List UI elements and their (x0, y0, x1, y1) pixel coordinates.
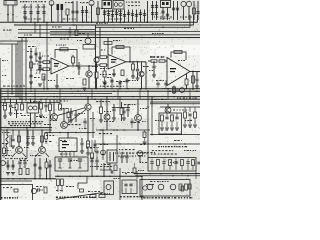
IC U4 (59, 138, 77, 152)
wire (104, 10, 106, 23)
resistor (26, 169, 29, 175)
label (90, 147, 99, 148)
wire cap stem (82, 6, 84, 22)
label (137, 152, 155, 153)
capacitor (130, 121, 133, 123)
resistor (194, 112, 197, 118)
value label (114, 178, 120, 179)
value label (131, 122, 140, 123)
wire (96, 163, 98, 170)
wire (45, 99, 47, 104)
node (111, 22, 113, 24)
resistor (120, 108, 123, 115)
wire (5, 162, 8, 164)
bus line mid3 (0, 96, 200, 98)
resistor (14, 189, 18, 192)
label (30, 155, 42, 156)
wire (34, 158, 36, 179)
op-amp U3 (167, 58, 190, 86)
node (30, 90, 32, 92)
vertical rail (147, 90, 149, 160)
capacitor (93, 144, 96, 146)
label (3, 86, 25, 87)
node (30, 22, 32, 24)
wire (46, 158, 48, 162)
wire (136, 10, 138, 23)
wire (127, 112, 129, 117)
resistor (132, 64, 135, 70)
bus line (14, 24, 194, 26)
node (30, 99, 31, 100)
module A6 (83, 45, 95, 50)
transistor Q21 (143, 186, 147, 190)
wire (196, 82, 198, 86)
wire (49, 160, 51, 179)
wire (21, 99, 23, 104)
ground (39, 115, 43, 117)
wire (50, 61, 52, 63)
node (30, 88, 32, 90)
wire (39, 158, 41, 179)
node (53, 96, 55, 98)
capacitor (162, 162, 165, 164)
wire bus stub (7, 89, 9, 99)
wire U4 pin (69, 152, 71, 158)
ground (26, 143, 30, 145)
value label (142, 121, 148, 122)
value label (23, 7, 28, 8)
label (185, 120, 192, 121)
value label (116, 81, 125, 82)
node (37, 22, 39, 24)
value label (162, 88, 170, 89)
value label (104, 121, 114, 122)
wire (125, 188, 127, 193)
label (160, 18, 172, 19)
node (21, 99, 22, 100)
wire (91, 140, 93, 153)
resistor (67, 112, 70, 118)
bus line (18, 32, 95, 34)
wire Q2 (91, 6, 93, 22)
node (49, 132, 51, 134)
resistor (19, 169, 22, 175)
wire (103, 163, 105, 176)
value label (149, 70, 153, 71)
connector J1 (4, 1, 17, 6)
wire U1 in+ (38, 61, 43, 63)
resistor (157, 160, 160, 166)
capacitor (103, 13, 106, 15)
bus line (50, 30, 200, 32)
ground (175, 128, 179, 130)
wire (46, 168, 48, 179)
resistor (100, 107, 103, 114)
label (155, 120, 161, 121)
label (66, 78, 74, 79)
node (119, 22, 121, 24)
label row (115, 153, 148, 154)
node (32, 127, 34, 129)
value label (78, 113, 85, 114)
wire (3, 130, 5, 148)
node (125, 173, 127, 175)
wire (112, 10, 114, 23)
capacitor C5 (71, 11, 74, 13)
node (91, 176, 93, 178)
node (61, 22, 63, 24)
wire bus stub (91, 89, 93, 99)
wire cap3 stem (37, 4, 39, 22)
IC module A2 (113, 1, 124, 10)
node (123, 129, 125, 131)
label U3 (170, 68, 176, 72)
label (140, 162, 147, 163)
node (173, 96, 175, 98)
wire R1 (57, 10, 59, 22)
wire (163, 159, 165, 161)
wire (43, 76, 45, 89)
label (128, 5, 140, 6)
wire (76, 25, 78, 30)
resistor (61, 179, 64, 186)
label row (158, 146, 188, 147)
wire U2 out (126, 61, 146, 63)
wire (69, 27, 71, 30)
wire (123, 108, 125, 111)
resistor (41, 136, 44, 142)
capacitor (38, 66, 41, 68)
value label (101, 50, 105, 51)
capacitor (197, 162, 200, 164)
wire (186, 74, 188, 79)
resistor R13 (159, 60, 165, 62)
resistor (45, 133, 48, 139)
label (2, 75, 6, 76)
connector J2 (1, 161, 6, 166)
capacitor (165, 117, 168, 119)
node (103, 143, 104, 144)
node (7, 178, 9, 180)
wire (108, 10, 110, 23)
node (11, 93, 13, 95)
capacitor (29, 56, 32, 58)
capacitor (69, 112, 72, 114)
label (152, 150, 174, 151)
resistor R9 (100, 64, 107, 67)
node (63, 98, 65, 100)
wire (4, 99, 6, 103)
wire (36, 190, 38, 192)
node (12, 178, 14, 180)
wire corner (189, 15, 191, 27)
label (184, 150, 196, 151)
resistor (103, 71, 106, 77)
wire (30, 99, 32, 103)
node (47, 88, 49, 90)
wire (195, 171, 197, 179)
wire U3 bias (173, 86, 175, 95)
label (126, 2, 140, 3)
none (122, 62, 124, 70)
wire (96, 147, 98, 150)
value label (173, 110, 189, 111)
wire (165, 80, 167, 82)
node (87, 132, 89, 134)
node (140, 88, 142, 90)
wire Q5 e (88, 77, 90, 89)
capacitor (68, 31, 71, 33)
wire diag (67, 110, 86, 124)
wire (91, 159, 93, 163)
wire (40, 99, 42, 103)
wire cap1 stem (24, 4, 26, 22)
vertical rail (92, 112, 94, 138)
transistor Q6 (94, 57, 99, 62)
wire (3, 154, 5, 159)
arrow pin2 (12, 14, 14, 17)
op-amp U1 (51, 58, 69, 74)
resistor R7 (60, 48, 68, 51)
capacitor (115, 13, 118, 15)
transistor Q12 (61, 122, 68, 129)
capacitor (11, 165, 14, 167)
capacitor C4 (42, 12, 45, 14)
wire (34, 99, 36, 103)
wire (104, 67, 106, 71)
scan speckle (0, 0, 200, 200)
capacitor (29, 75, 32, 77)
value label (21, 115, 30, 116)
label (30, 101, 40, 102)
module A4 (107, 150, 117, 163)
node (139, 24, 141, 26)
wire diag (57, 108, 85, 116)
wire cap4 stem (43, 4, 45, 22)
value label (2, 105, 7, 106)
node (43, 22, 45, 24)
wire (16, 99, 18, 104)
wire Q12 c (63, 108, 65, 122)
node (24, 22, 26, 24)
label row (118, 156, 145, 157)
wire Q11 c (53, 99, 55, 113)
value label (33, 64, 40, 65)
node (134, 173, 135, 174)
label (68, 124, 81, 125)
wire cap2 stem (30, 4, 32, 22)
transistor Q1 (49, 1, 54, 6)
capacitor (129, 184, 132, 186)
label (56, 101, 68, 102)
label (60, 140, 66, 141)
transistor Q23 (158, 184, 164, 190)
vertical rail (151, 97, 153, 135)
value label (154, 17, 172, 18)
capacitor (155, 6, 158, 8)
node (11, 88, 13, 90)
label (2, 60, 8, 61)
resistor R14 (174, 51, 182, 54)
node (82, 22, 84, 24)
wire U4 pin (61, 152, 63, 158)
value label (27, 51, 32, 52)
ground (122, 118, 126, 120)
wire (91, 163, 93, 176)
label row2 (8, 123, 42, 124)
resistor (133, 168, 136, 173)
node (159, 143, 160, 144)
capacitor (186, 162, 189, 164)
wire (78, 70, 80, 75)
wire (169, 166, 171, 171)
value label (103, 11, 123, 12)
none (110, 110, 135, 117)
ground (160, 128, 164, 130)
arrow pin1 (7, 14, 9, 17)
wire U3 out (190, 71, 200, 73)
wire bus stub (189, 89, 191, 99)
wire (119, 97, 121, 107)
resistor (49, 104, 52, 111)
wire Q9 e (12, 153, 16, 157)
resistor (80, 189, 84, 192)
node (41, 129, 43, 131)
value label (42, 56, 49, 57)
wire (121, 159, 123, 163)
value label (100, 193, 110, 194)
wire (27, 139, 29, 143)
wire Q10 b (41, 130, 43, 147)
ground (143, 142, 147, 144)
wire (19, 165, 21, 168)
wire (186, 85, 188, 89)
wire (177, 1, 179, 20)
filter box (148, 158, 196, 172)
capacitor (80, 143, 83, 145)
node (146, 22, 148, 24)
node (46, 178, 48, 180)
wire (181, 166, 183, 171)
wire (127, 104, 129, 108)
wire (166, 122, 168, 128)
wire (148, 60, 151, 62)
capacitor (151, 13, 154, 15)
wire U1 out (69, 65, 96, 67)
wire bus stub (167, 89, 169, 99)
wire (75, 110, 77, 113)
wire (84, 124, 86, 128)
node (162, 27, 164, 29)
node (40, 99, 41, 100)
wire U1 in- (38, 68, 43, 70)
node (192, 71, 194, 73)
transistor Q16 (165, 107, 171, 113)
resistor (72, 57, 75, 63)
wire Q7 (141, 62, 143, 72)
label (44, 124, 51, 125)
node (160, 173, 162, 175)
node (119, 143, 120, 144)
resistor (83, 79, 86, 85)
label row (120, 196, 144, 197)
wire (24, 158, 26, 161)
enclosure box (0, 185, 33, 201)
transistor Q5 (86, 71, 92, 77)
capacitor (107, 14, 110, 16)
capacitor (150, 162, 153, 164)
wire (72, 63, 74, 66)
node (46, 22, 48, 24)
wire (50, 68, 52, 70)
ground (131, 76, 135, 78)
wire (40, 189, 43, 191)
wire (157, 80, 159, 82)
label (20, 160, 28, 161)
wire Q9 b (18, 130, 20, 147)
resistor R5 (43, 61, 50, 64)
wire (68, 118, 70, 123)
resistor (169, 160, 172, 166)
value label (107, 77, 112, 78)
node (59, 132, 61, 134)
value label (79, 33, 85, 34)
wire (81, 138, 83, 142)
wire (30, 68, 32, 74)
node (7, 127, 9, 129)
resistor R3 (66, 9, 69, 15)
node (87, 22, 89, 24)
bus line (96, 143, 200, 145)
value label (104, 111, 111, 112)
node (46, 88, 48, 90)
wire (161, 122, 163, 128)
transistor Q22 (147, 184, 153, 190)
wire U1 gnd (56, 74, 58, 86)
wire (175, 164, 177, 170)
capacitor (48, 165, 51, 167)
capacitor (118, 82, 121, 84)
wire (176, 114, 178, 117)
capacitor (172, 8, 175, 10)
label (100, 166, 112, 167)
wire (152, 1, 154, 20)
node (88, 65, 90, 67)
wire J1 pin1 (7, 5, 9, 22)
wire (173, 1, 175, 20)
bus line (18, 37, 200, 39)
wire (30, 48, 32, 89)
wire (72, 55, 74, 57)
capacitor electrolytic (58, 159, 62, 168)
label U1 (54, 63, 59, 67)
resistor (21, 104, 24, 110)
capacitor (74, 114, 77, 116)
wire (94, 140, 96, 152)
bus line (45, 132, 95, 134)
resistor (179, 184, 182, 190)
node (153, 96, 155, 98)
ground (3, 116, 7, 118)
node (6, 129, 8, 131)
op-amp U2 (108, 55, 126, 70)
wire (121, 102, 123, 108)
wire rail (147, 1, 149, 22)
wire Q9 c (23, 153, 27, 157)
resistor (192, 160, 195, 166)
wire Q15 e (137, 121, 139, 130)
node (137, 61, 139, 63)
